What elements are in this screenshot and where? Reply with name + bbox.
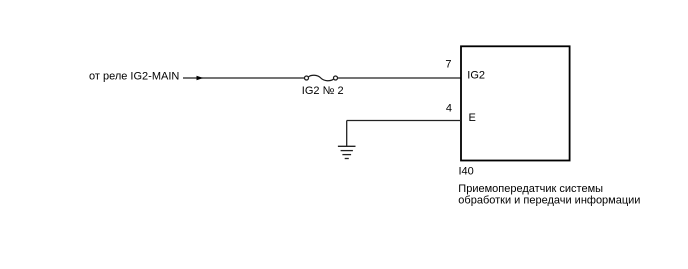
svg-text:от реле IG2-MAIN: от реле IG2-MAIN <box>89 71 179 83</box>
svg-text:обработки и передачи информаци: обработки и передачи информации <box>458 195 640 207</box>
svg-text:4: 4 <box>446 102 452 114</box>
wire: ground run to pin 4 <box>347 120 461 122</box>
component I40 box <box>461 46 570 160</box>
svg-text:I40: I40 <box>459 165 474 177</box>
svg-text:IG2: IG2 <box>467 69 485 81</box>
svg-text:Приемопередатчик системы: Приемопередатчик системы <box>458 183 603 195</box>
svg-text:IG2 № 2: IG2 № 2 <box>302 85 344 97</box>
svg-text:E: E <box>469 112 476 124</box>
ground <box>338 146 356 158</box>
fuse IG2 № 2 (fusible link symbol) <box>305 75 338 80</box>
wire: fuse to pin 7 <box>338 77 461 79</box>
signal direction arrow <box>197 76 204 81</box>
wire: ground riser <box>346 121 348 147</box>
svg-text:7: 7 <box>445 58 451 70</box>
wire: feed segment to fuse <box>183 77 304 79</box>
